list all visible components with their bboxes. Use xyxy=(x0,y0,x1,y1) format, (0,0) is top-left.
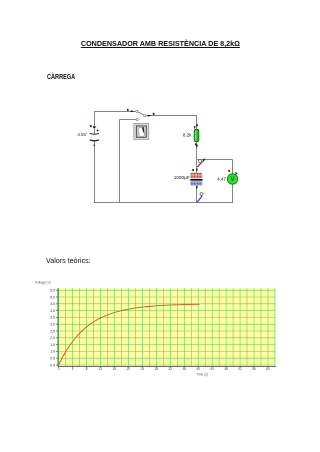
svg-text:4: 4 xyxy=(72,367,74,371)
wire voltmeter branch horizontal xyxy=(197,159,233,161)
svg-text:3.5: 3.5 xyxy=(50,316,55,320)
switch current arrow right xyxy=(148,115,151,117)
svg-text:48: 48 xyxy=(224,367,228,371)
wire voltmeter branch vertical xyxy=(232,160,234,203)
wire resistor vertical top xyxy=(196,115,198,130)
svg-text:12: 12 xyxy=(99,367,103,371)
svg-text:4.0: 4.0 xyxy=(50,309,55,313)
chart vertical gridlines xyxy=(59,288,275,366)
wire bottom rail xyxy=(94,202,233,204)
svg-text:0: 0 xyxy=(58,367,60,371)
resistor current arrow top xyxy=(194,126,196,129)
switch red node dot right xyxy=(153,113,155,115)
title xyxy=(81,40,240,47)
resistor red node dot top xyxy=(196,124,198,126)
svg-text:20: 20 xyxy=(127,367,131,371)
chart plot background xyxy=(58,288,276,366)
svg-text:4.47: 4.47 xyxy=(217,177,226,182)
svg-text:5.5: 5.5 xyxy=(50,289,55,293)
svg-text:28: 28 xyxy=(155,367,159,371)
wire top-left horizontal xyxy=(94,111,137,113)
chart: theoretical charge curve xyxy=(26,277,288,379)
battery red node dot xyxy=(90,125,92,127)
wire resistor to capacitor xyxy=(196,142,198,173)
switch picture box xyxy=(134,123,149,139)
svg-text:V: V xyxy=(230,177,234,183)
svg-text:24: 24 xyxy=(141,367,145,371)
svg-text:32: 32 xyxy=(169,367,173,371)
svg-text:2.5: 2.5 xyxy=(50,329,55,333)
wire discharge vertical xyxy=(119,120,121,203)
svg-text:36: 36 xyxy=(182,367,186,371)
svg-text:0.0: 0.0 xyxy=(50,363,55,367)
wire discharge horizontal xyxy=(120,119,137,121)
svg-text:5.0: 5.0 xyxy=(50,295,55,299)
switch red node dot left xyxy=(127,109,129,111)
svg-text:2.0: 2.0 xyxy=(50,336,55,340)
resistor R1 8.2k xyxy=(194,129,199,141)
heading CARREGA xyxy=(47,73,75,80)
svg-text:Time (s): Time (s) xyxy=(196,373,208,377)
wire battery vertical bottom xyxy=(94,142,96,203)
circuit schematic xyxy=(70,100,245,210)
svg-text:44: 44 xyxy=(210,367,214,371)
switch current arrow left xyxy=(131,110,134,112)
svg-text:60: 60 xyxy=(266,367,270,371)
resistor red node dot bottom xyxy=(195,143,197,145)
svg-text:52: 52 xyxy=(238,367,242,371)
svg-text:16: 16 xyxy=(113,367,117,371)
svg-text:4.5: 4.5 xyxy=(50,302,55,306)
capacitor current arrow bottom xyxy=(196,186,198,189)
capacitor red node dot xyxy=(192,169,194,171)
chart curve xyxy=(59,304,200,365)
svg-text:1000µF: 1000µF xyxy=(174,175,190,180)
svg-text:0.5: 0.5 xyxy=(50,357,55,361)
svg-text:4.5V: 4.5V xyxy=(77,132,86,137)
svg-text:40: 40 xyxy=(196,367,200,371)
svg-text:8.2k: 8.2k xyxy=(183,132,192,137)
capacitor current arrow top xyxy=(196,169,198,172)
battery B1 4.5V xyxy=(90,129,99,146)
battery current arrow xyxy=(93,126,97,128)
svg-text:3.0: 3.0 xyxy=(50,323,55,327)
wire switch to resistor xyxy=(146,115,197,117)
capacitor C1 1000uF xyxy=(190,173,202,185)
svg-text:Voltage (V): Voltage (V) xyxy=(35,281,51,285)
wire capacitor to rail xyxy=(196,185,198,202)
svg-text:56: 56 xyxy=(252,367,256,371)
chart y axis xyxy=(57,288,59,366)
resistor current arrow bottom xyxy=(196,145,198,148)
chart horizontal gridlines xyxy=(58,290,276,365)
chart x axis xyxy=(58,365,276,367)
svg-text:1.0: 1.0 xyxy=(50,350,55,354)
voltmeter current arrow xyxy=(235,172,237,175)
svg-text:8: 8 xyxy=(86,367,88,371)
voltmeter M1 xyxy=(227,174,237,184)
switch S1 (changeover) xyxy=(136,110,146,120)
svg-text:1.5: 1.5 xyxy=(50,343,55,347)
section label xyxy=(46,257,91,265)
wire battery vertical top xyxy=(94,111,96,134)
voltage probe red (cap top node) xyxy=(197,159,205,167)
voltmeter red node dot xyxy=(228,170,230,172)
voltage probe blue (cap bottom node) xyxy=(197,193,205,203)
